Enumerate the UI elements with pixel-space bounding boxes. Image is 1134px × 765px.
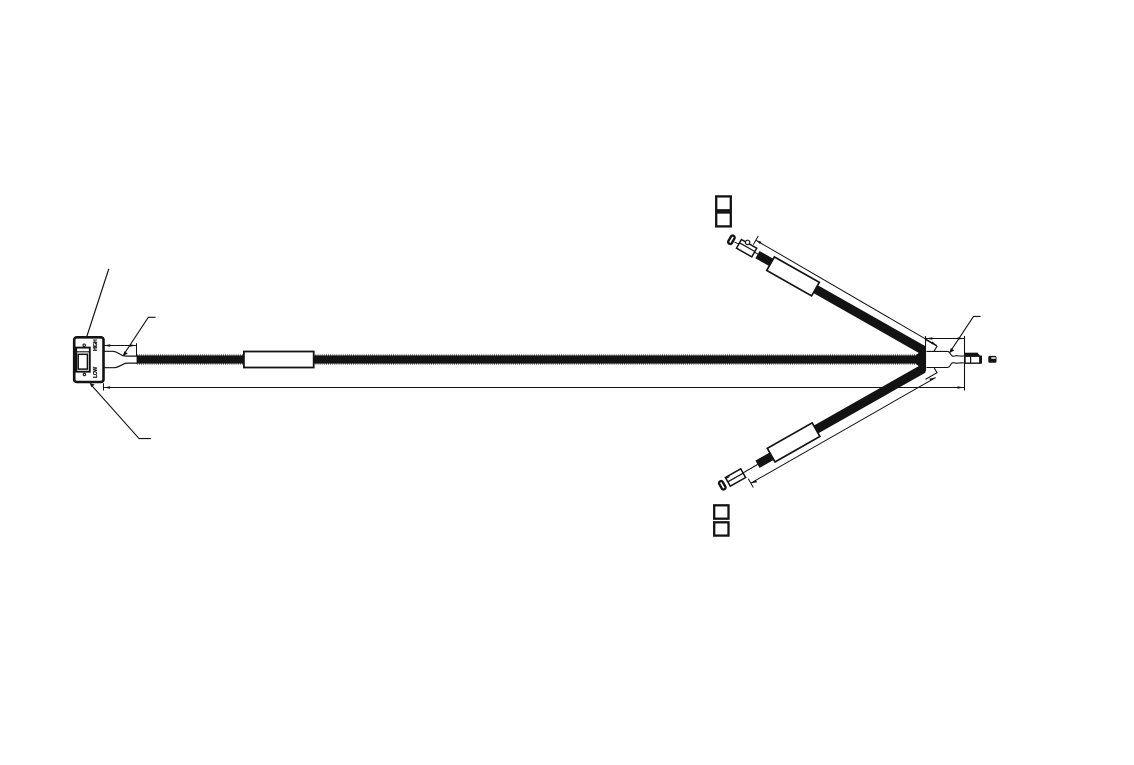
right leader (with arrowhead) [949,316,980,353]
upper branch exposed segment before sleeve [755,251,777,269]
lower branch cable (black strip to junction) [786,362,926,449]
junction width dimension (top) [926,337,964,339]
left connector body [74,337,103,382]
right end small connector [965,353,983,364]
callout squares upper [716,196,731,210]
cable label sleeve (white rect on main cable) [244,352,314,368]
wire taper from left connector to cable [104,351,137,367]
leader line to connector top [87,269,109,337]
svg-text:HIGH: HIGH [93,339,99,351]
lower branch dimension line [748,377,936,487]
leader from connector bottom (with arrowhead) [90,383,151,439]
left junction extension line (vertical) [925,336,927,371]
lower branch tip: connector body [725,469,745,486]
upper branch tip: connector body [736,240,756,257]
callout squares lower [714,505,728,518]
junction filler [911,347,926,372]
right end dust cap [988,356,996,363]
upper branch tip: thin wire [747,248,758,254]
small dimension (left, connector to cable start) [104,343,137,356]
lower branch tip: washer [717,479,728,492]
overall length dimension line (bottom) [104,383,964,390]
junction boot outline upper [926,340,964,357]
upper branch tip: washer [726,233,737,246]
lower branch exposed segment before sleeve [755,450,777,468]
lower branch tip: pin [726,476,730,478]
svg-text:LOW: LOW [93,367,99,378]
upper branch tip: nut circle [745,240,749,244]
upper branch sleeve label [767,257,820,296]
lower branch tip: thin wire [742,465,758,474]
upper branch dimension line [753,236,937,346]
junction boot outline lower [926,363,964,380]
right extension line (vertical, at cable end) [964,336,966,391]
upper branch tip: pin [735,242,740,244]
main cable (thick black jacket) [137,355,926,364]
leader to wire taper (with arrowhead) [123,317,156,356]
upper branch cable (black strip to junction) [786,270,926,357]
lower branch sleeve label [767,423,820,462]
